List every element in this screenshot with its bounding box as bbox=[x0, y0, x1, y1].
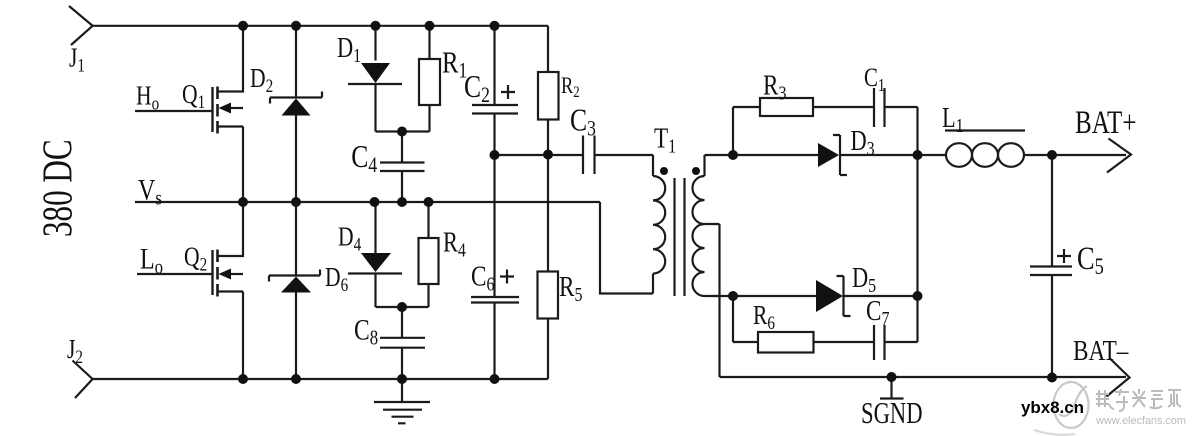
svg-text:Lo: Lo bbox=[140, 242, 163, 279]
svg-text:C6: C6 bbox=[471, 260, 494, 295]
svg-text:D2: D2 bbox=[250, 64, 273, 97]
svg-text:www.elecfans.com: www.elecfans.com bbox=[1095, 415, 1186, 427]
svg-text:C3: C3 bbox=[570, 103, 596, 141]
svg-text:C2: C2 bbox=[464, 69, 490, 107]
svg-text:D5: D5 bbox=[852, 263, 876, 297]
svg-text:Q2: Q2 bbox=[184, 242, 207, 275]
svg-text:380 DC: 380 DC bbox=[34, 139, 81, 237]
svg-text:Q1: Q1 bbox=[182, 80, 205, 113]
svg-text:C7: C7 bbox=[866, 295, 889, 330]
svg-text:BAT–: BAT– bbox=[1073, 335, 1129, 367]
svg-text:D6: D6 bbox=[325, 263, 349, 296]
svg-text:D1: D1 bbox=[337, 33, 361, 67]
svg-text:C8: C8 bbox=[354, 313, 378, 350]
svg-text:R4: R4 bbox=[443, 227, 466, 261]
svg-text:C4: C4 bbox=[351, 139, 377, 177]
svg-text:J1: J1 bbox=[69, 43, 85, 76]
svg-text:L1: L1 bbox=[942, 103, 964, 137]
svg-text:ybx8.cn: ybx8.cn bbox=[1021, 398, 1084, 417]
svg-text:J2: J2 bbox=[67, 335, 83, 368]
svg-text:C5: C5 bbox=[1077, 240, 1104, 279]
svg-text:T1: T1 bbox=[654, 122, 676, 157]
svg-text:R5: R5 bbox=[559, 271, 582, 306]
svg-text:SGND: SGND bbox=[861, 396, 923, 430]
svg-text:Ho: Ho bbox=[136, 82, 159, 115]
svg-text:Vs: Vs bbox=[138, 173, 162, 210]
svg-text:D3: D3 bbox=[851, 126, 875, 160]
svg-text:D4: D4 bbox=[338, 222, 362, 255]
svg-text:R3: R3 bbox=[763, 69, 786, 104]
svg-text:BAT+: BAT+ bbox=[1075, 105, 1137, 141]
svg-text:R6: R6 bbox=[753, 301, 775, 334]
svg-text:C1: C1 bbox=[864, 64, 885, 96]
svg-text:R2: R2 bbox=[561, 72, 580, 101]
